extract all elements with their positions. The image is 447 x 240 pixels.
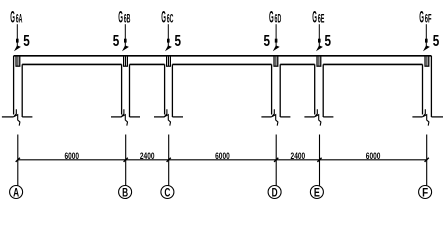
dimension tick at D — [274, 158, 278, 162]
dimension tick at B — [124, 158, 128, 162]
column A break symbol — [2, 109, 33, 125]
svg-text:5: 5 — [263, 33, 270, 50]
svg-text:D: D — [272, 187, 278, 199]
svg-text:G: G — [118, 9, 123, 27]
svg-text:6E: 6E — [318, 14, 325, 26]
column B edges — [122, 64, 130, 117]
svg-text:6B: 6B — [124, 14, 131, 26]
svg-text:6000: 6000 — [64, 151, 79, 161]
grid line B — [125, 135, 127, 186]
grid bubble F — [419, 186, 432, 200]
svg-text:6A: 6A — [16, 14, 23, 26]
svg-text:G: G — [312, 9, 317, 27]
load value 5 at D — [263, 33, 270, 50]
load value 5 at F — [433, 33, 440, 50]
load value 5 at C — [174, 33, 181, 50]
column A edges — [14, 56, 23, 117]
load label G6F — [419, 9, 431, 27]
load value 5 at B — [113, 33, 120, 50]
svg-text:C: C — [164, 187, 170, 199]
column E break symbol — [304, 109, 333, 125]
load label G6A — [10, 9, 22, 27]
column D break symbol — [261, 109, 290, 125]
svg-text:G: G — [161, 9, 166, 27]
dimension value 6000 — [215, 151, 230, 161]
svg-text:G: G — [269, 9, 274, 27]
load label G6E — [312, 9, 324, 27]
load arrow at D — [273, 24, 280, 51]
grid bubble A — [10, 186, 23, 200]
column C break symbol — [154, 109, 183, 125]
svg-text:G: G — [419, 9, 424, 27]
column E cap hatch — [316, 55, 321, 67]
svg-text:5: 5 — [113, 33, 120, 50]
dimension value 2400 — [140, 151, 155, 161]
grid line C — [168, 135, 170, 186]
column C edges — [165, 64, 173, 117]
dimension tick at C — [167, 158, 171, 162]
svg-text:5: 5 — [174, 33, 181, 50]
column A cap hatch — [15, 55, 20, 67]
svg-text:A: A — [13, 187, 19, 199]
svg-text:5: 5 — [23, 33, 30, 50]
load arrow at F — [423, 24, 430, 51]
column D cap hatch — [273, 55, 278, 67]
load label G6B — [118, 9, 130, 27]
dimension tick at E — [317, 158, 321, 162]
load arrow at A — [14, 24, 21, 51]
svg-text:F: F — [422, 187, 428, 199]
grid line A — [17, 135, 19, 186]
column B break symbol — [111, 109, 140, 125]
beam G6 top line — [14, 55, 432, 57]
beam G6 bottom line — [22, 63, 422, 65]
svg-text:E: E — [314, 187, 320, 199]
svg-text:6C: 6C — [167, 14, 174, 26]
svg-text:5: 5 — [433, 33, 440, 50]
svg-text:6D: 6D — [275, 14, 282, 26]
load arrow at E — [316, 24, 323, 51]
column D edges — [272, 64, 281, 117]
column F cap hatch — [424, 55, 429, 67]
column E edges — [315, 64, 324, 117]
load value 5 at E — [324, 33, 331, 50]
load arrow at C — [165, 24, 172, 51]
svg-text:6000: 6000 — [366, 151, 381, 161]
dimension value 6000 — [64, 151, 79, 161]
load label G6D — [269, 9, 281, 27]
svg-text:2400: 2400 — [140, 151, 155, 161]
dimension line — [18, 159, 427, 161]
column C cap hatch — [166, 55, 171, 67]
dimension tick at F — [425, 158, 429, 162]
svg-text:G: G — [10, 9, 15, 27]
dimension tick at A — [16, 158, 20, 162]
grid bubble C — [161, 186, 174, 200]
grid bubble B — [119, 186, 132, 200]
svg-text:6F: 6F — [425, 14, 432, 26]
grid line E — [319, 135, 321, 186]
grid bubble E — [310, 186, 323, 200]
column F edges — [423, 56, 432, 117]
column B cap hatch — [123, 55, 128, 67]
dimension value 6000 — [366, 151, 381, 161]
grid line F — [426, 135, 428, 186]
svg-text:2400: 2400 — [291, 151, 306, 161]
load value 5 at A — [23, 33, 30, 50]
load label G6C — [161, 9, 173, 27]
load arrow at B — [122, 24, 129, 51]
column F break symbol — [412, 109, 443, 125]
svg-text:5: 5 — [324, 33, 331, 50]
dimension value 2400 — [291, 151, 306, 161]
svg-text:6000: 6000 — [215, 151, 230, 161]
grid bubble D — [268, 186, 281, 200]
grid line D — [275, 135, 277, 186]
svg-text:B: B — [122, 187, 128, 199]
